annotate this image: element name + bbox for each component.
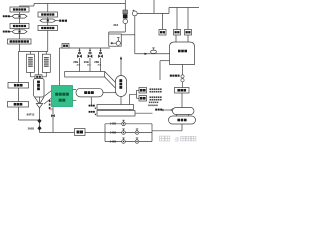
svg-text:140B: 140B <box>110 130 116 134</box>
svg-text:140B: 140B <box>110 139 116 143</box>
svg-text:2kB: 2kB <box>87 65 91 67</box>
svg-text:26B: 26B <box>84 60 89 64</box>
svg-text:140B: 140B <box>110 122 116 126</box>
svg-text:26B: 26B <box>94 60 99 64</box>
svg-text:2kB: 2kB <box>77 65 81 67</box>
svg-text:316: 316 <box>113 23 118 27</box>
svg-text:80P12: 80P12 <box>27 113 35 117</box>
svg-text:2kB: 2kB <box>98 65 102 67</box>
svg-text:26B: 26B <box>73 60 78 64</box>
svg-text:@: @ <box>174 137 179 143</box>
svg-text:360B: 360B <box>28 126 34 130</box>
